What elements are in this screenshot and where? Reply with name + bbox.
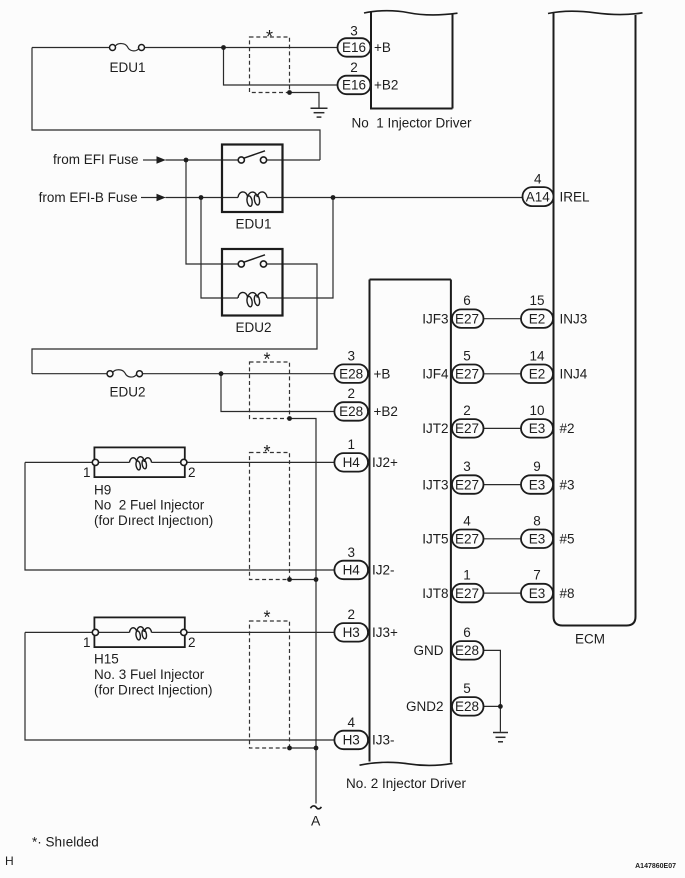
svg-text:GND2: GND2 xyxy=(406,699,444,714)
svg-text:4: 4 xyxy=(347,715,355,730)
svg-text:EDU2: EDU2 xyxy=(235,320,271,335)
svg-text:IJT5: IJT5 xyxy=(422,532,448,547)
svg-text:*· Shıelded: *· Shıelded xyxy=(32,835,99,850)
svg-text:E3: E3 xyxy=(529,532,546,547)
svg-text:from EFI-B Fuse: from EFI-B Fuse xyxy=(39,190,138,205)
svg-text:H15: H15 xyxy=(94,652,119,667)
svg-text:E2: E2 xyxy=(529,311,546,326)
svg-text:H: H xyxy=(5,854,14,868)
svg-text:E28: E28 xyxy=(455,699,479,714)
svg-text:8: 8 xyxy=(533,513,541,528)
svg-text:E27: E27 xyxy=(455,477,479,492)
svg-text:E3: E3 xyxy=(529,421,546,436)
svg-text:E27: E27 xyxy=(455,586,479,601)
svg-text:*: * xyxy=(263,607,270,627)
svg-text:3: 3 xyxy=(347,545,355,560)
svg-text:E27: E27 xyxy=(455,311,479,326)
svg-text:E3: E3 xyxy=(529,477,546,492)
svg-text:H3: H3 xyxy=(343,733,360,748)
svg-text:2: 2 xyxy=(347,386,355,401)
svg-text:2: 2 xyxy=(188,635,196,650)
svg-text:14: 14 xyxy=(529,348,545,363)
svg-text:IJT8: IJT8 xyxy=(422,586,448,601)
svg-text:3: 3 xyxy=(350,23,358,38)
svg-text:INJ4: INJ4 xyxy=(560,367,588,382)
svg-text:H3: H3 xyxy=(343,625,360,640)
svg-text:6: 6 xyxy=(463,293,471,308)
svg-text:+B: +B xyxy=(374,40,391,55)
svg-text:E16: E16 xyxy=(342,40,366,55)
svg-text:#3: #3 xyxy=(560,477,575,492)
svg-text:GND: GND xyxy=(414,643,444,658)
svg-text:7: 7 xyxy=(533,568,541,583)
svg-text:6: 6 xyxy=(463,625,471,640)
svg-text:5: 5 xyxy=(463,681,471,696)
svg-text:No 1 Injector Driver: No 1 Injector Driver xyxy=(351,116,472,131)
svg-text:3: 3 xyxy=(463,459,471,474)
svg-text:E27: E27 xyxy=(455,421,479,436)
svg-text:EDU2: EDU2 xyxy=(109,385,145,400)
svg-text:INJ3: INJ3 xyxy=(560,311,588,326)
svg-text:2: 2 xyxy=(463,403,471,418)
svg-text:*: * xyxy=(263,349,270,369)
svg-text:IJ3-: IJ3- xyxy=(372,733,395,748)
svg-text:3: 3 xyxy=(347,349,355,364)
svg-text:H4: H4 xyxy=(343,563,361,578)
svg-text:+B2: +B2 xyxy=(374,404,398,419)
svg-text:IJ3+: IJ3+ xyxy=(372,625,398,640)
svg-text:1: 1 xyxy=(83,465,91,480)
svg-text:IREL: IREL xyxy=(560,189,591,204)
svg-text:+B: +B xyxy=(374,366,391,381)
svg-text:E27: E27 xyxy=(455,532,479,547)
svg-text:EDU1: EDU1 xyxy=(109,60,145,75)
svg-text:2: 2 xyxy=(350,60,358,75)
svg-text:4: 4 xyxy=(534,171,542,186)
svg-text:+B2: +B2 xyxy=(374,78,398,93)
svg-text:(for Dırect Injectıon): (for Dırect Injectıon) xyxy=(94,513,213,528)
svg-text:*: * xyxy=(266,27,273,47)
svg-text:E3: E3 xyxy=(529,586,546,601)
svg-text:15: 15 xyxy=(529,293,544,308)
svg-text:IJ2-: IJ2- xyxy=(372,563,395,578)
svg-text:1: 1 xyxy=(83,635,91,650)
svg-text:#5: #5 xyxy=(560,532,575,547)
svg-text:E27: E27 xyxy=(455,367,479,382)
svg-text:E2: E2 xyxy=(529,367,546,382)
svg-text:E28: E28 xyxy=(339,404,363,419)
svg-text:2: 2 xyxy=(188,465,196,480)
svg-text:IJF3: IJF3 xyxy=(422,311,448,326)
svg-text:IJT2: IJT2 xyxy=(422,421,448,436)
svg-text:from EFI Fuse: from EFI Fuse xyxy=(53,152,139,167)
svg-text:E28: E28 xyxy=(455,643,479,658)
svg-text:5: 5 xyxy=(463,348,471,363)
svg-text:IJT3: IJT3 xyxy=(422,477,448,492)
svg-text:*: * xyxy=(263,442,270,462)
svg-text:No 2 Fuel Injector: No 2 Fuel Injector xyxy=(94,498,205,513)
svg-text:10: 10 xyxy=(529,403,544,418)
svg-text:(for Dırect Injection): (for Dırect Injection) xyxy=(94,683,213,698)
svg-text:H9: H9 xyxy=(94,483,111,498)
svg-text:#2: #2 xyxy=(560,421,575,436)
svg-text:No. 3 Fuel Injector: No. 3 Fuel Injector xyxy=(94,667,205,682)
svg-text:#8: #8 xyxy=(560,586,575,601)
svg-text:1: 1 xyxy=(347,437,355,452)
svg-text:H4: H4 xyxy=(343,455,361,470)
svg-text:1: 1 xyxy=(463,568,471,583)
svg-text:E28: E28 xyxy=(339,366,363,381)
svg-text:EDU1: EDU1 xyxy=(235,217,271,232)
svg-text:E16: E16 xyxy=(342,78,366,93)
svg-text:ECM: ECM xyxy=(575,632,605,647)
svg-text:IJ2+: IJ2+ xyxy=(372,455,398,470)
svg-text:A147860E07: A147860E07 xyxy=(635,863,676,870)
svg-text:A: A xyxy=(311,813,321,829)
svg-text:9: 9 xyxy=(533,459,541,474)
svg-text:4: 4 xyxy=(463,513,471,528)
svg-text:IJF4: IJF4 xyxy=(422,367,449,382)
svg-text:No. 2 Injector Driver: No. 2 Injector Driver xyxy=(346,776,467,791)
svg-text:2: 2 xyxy=(347,607,355,622)
svg-text:A14: A14 xyxy=(526,189,551,204)
